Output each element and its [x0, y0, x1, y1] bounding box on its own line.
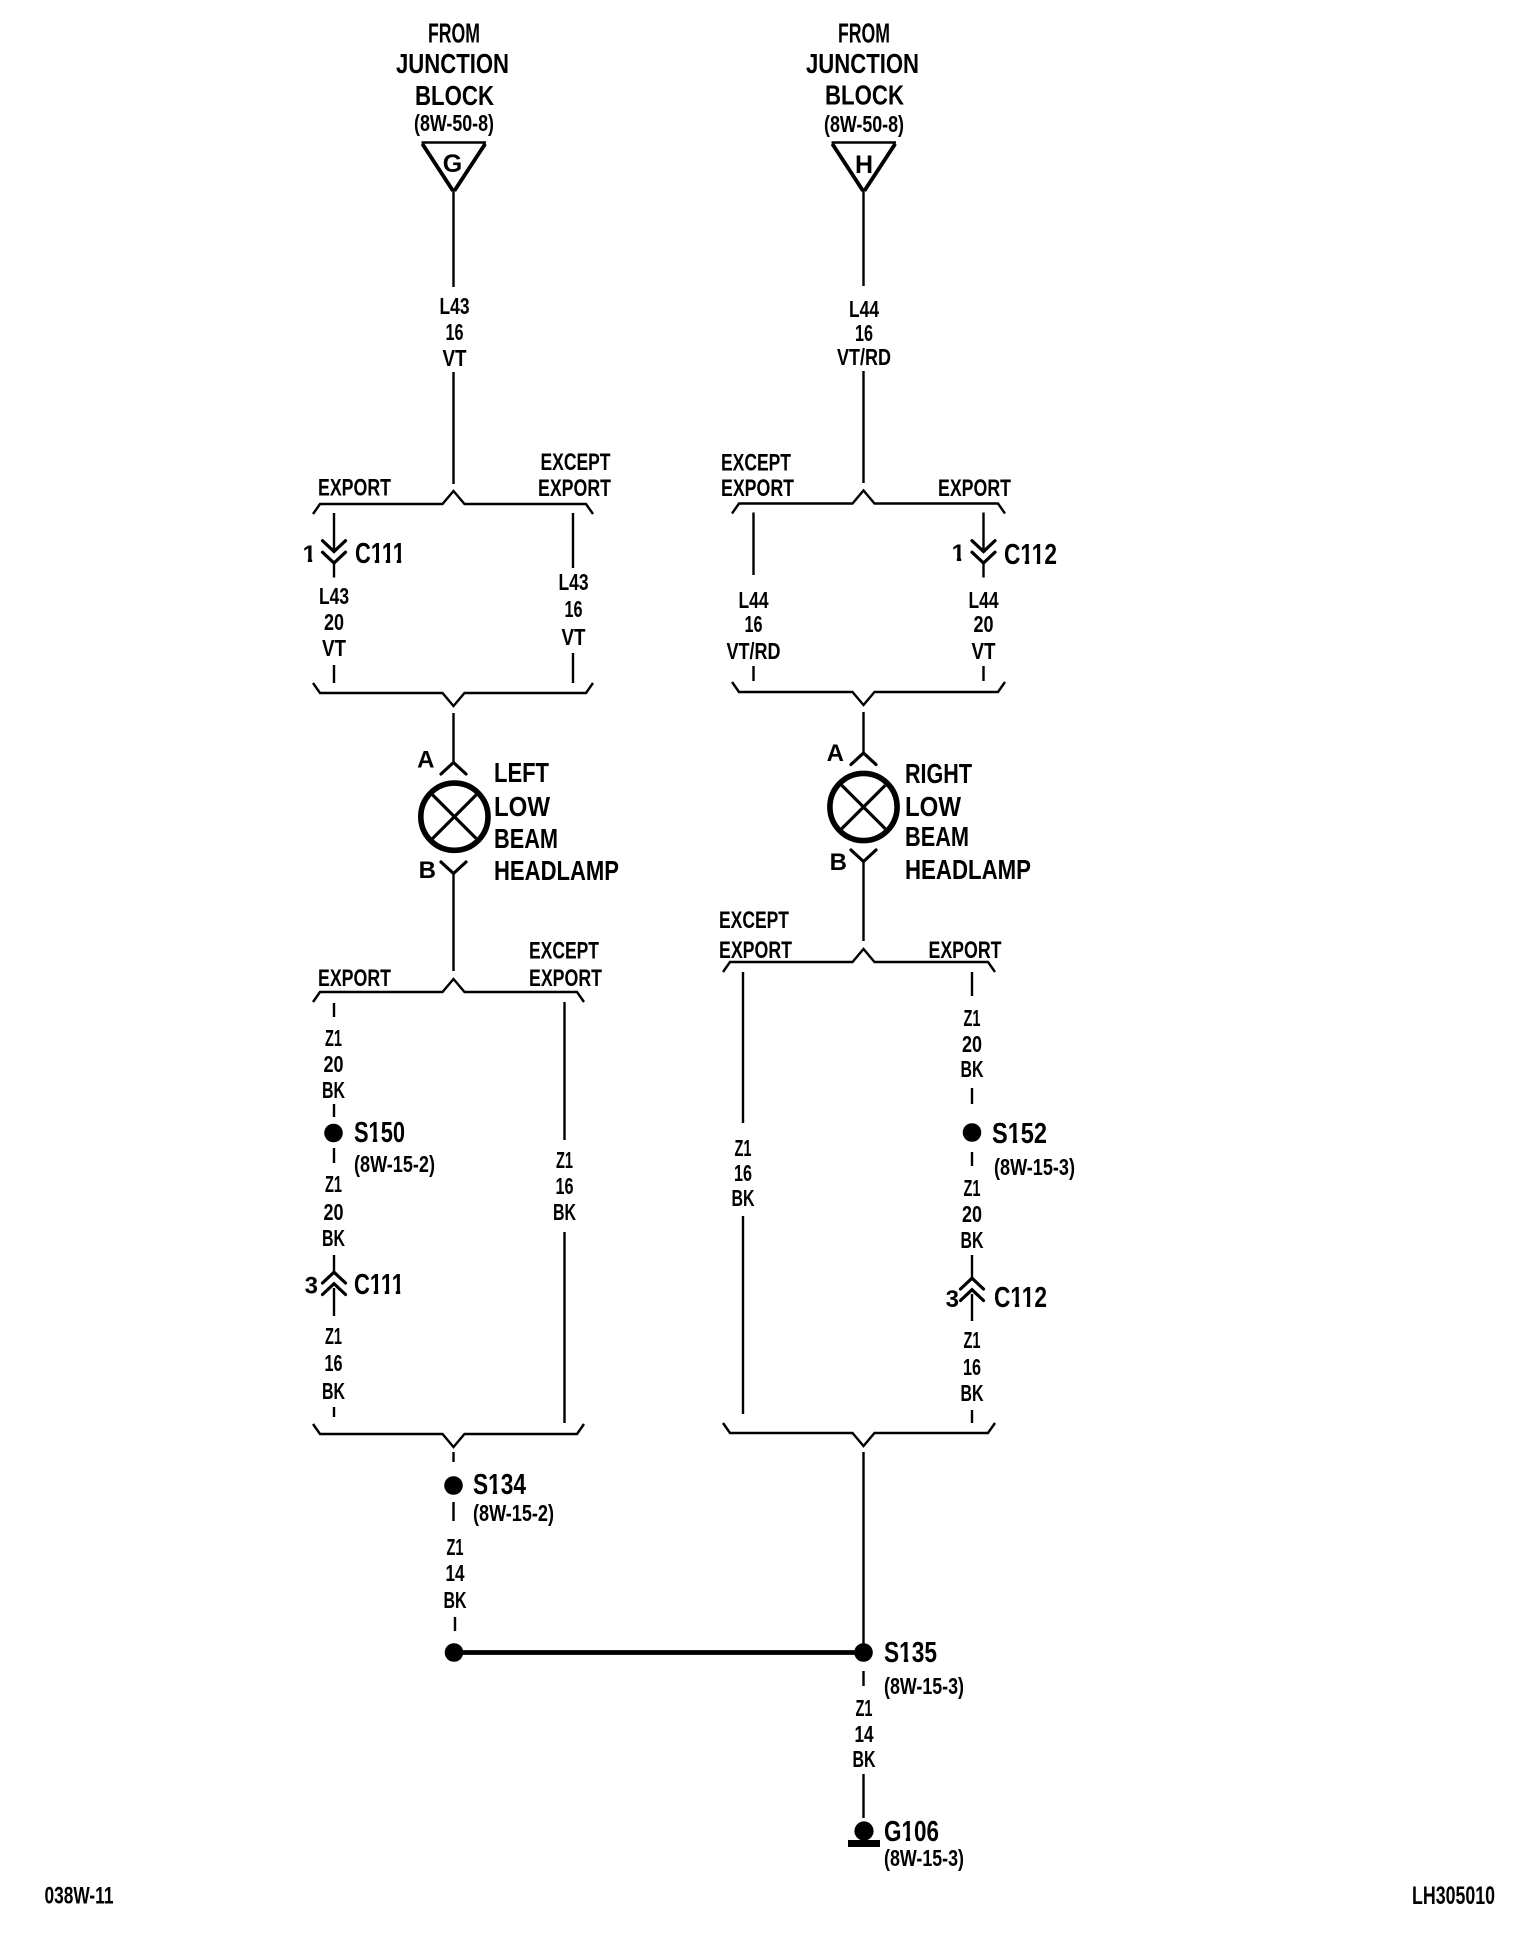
label EXCEPT EXPORT (left branch of split 1 right) [721, 450, 794, 503]
wire from triangle G down [452, 190, 454, 287]
svg-text:20: 20 [962, 1031, 982, 1057]
svg-text:16: 16 [745, 611, 763, 637]
dashed wire segment (export branch top) [333, 1003, 335, 1017]
wire right branch (EXPORT) down to C112 [982, 513, 984, 550]
svg-text:VT: VT [562, 624, 587, 650]
svg-text:LOW: LOW [494, 791, 550, 822]
svg-text:EXPORT: EXPORT [938, 475, 1011, 502]
wire from triangle H down [862, 190, 864, 286]
wire label L43 16 VT (except export branch) [559, 569, 589, 650]
connector triangle H (off-page from junction block) [832, 143, 897, 191]
svg-text:Z1: Z1 [856, 1695, 873, 1721]
svg-text:RIGHT: RIGHT [905, 758, 972, 789]
lamp name RIGHT LOW BEAM HEADLAMP [905, 758, 1031, 885]
dashed wire segment [452, 1452, 454, 1462]
svg-text:20: 20 [324, 1199, 344, 1225]
wire right branch (EXPORT) [971, 972, 973, 996]
svg-text:16: 16 [734, 1160, 752, 1186]
svg-text:S134: S134 [473, 1469, 526, 1501]
dashed wire segment [752, 666, 754, 681]
svg-text:20: 20 [324, 1051, 344, 1077]
svg-text:G106: G106 [884, 1816, 939, 1848]
svg-text:L44: L44 [849, 296, 879, 322]
svg-text:Z1: Z1 [325, 1323, 342, 1349]
wire right branch (EXCEPT EXPORT) [572, 513, 574, 568]
wire label L43 20 VT (export branch) [319, 583, 349, 661]
wire from merge down to pin A [452, 713, 454, 762]
dashed wire segment [971, 1088, 973, 1104]
splice S150 [324, 1124, 343, 1143]
wire down to split brace [452, 372, 454, 484]
svg-text:C111: C111 [354, 1269, 404, 1301]
svg-text:H: H [855, 151, 873, 179]
wire from merge down to S135 [862, 1452, 864, 1644]
svg-text:LEFT: LEFT [494, 757, 549, 788]
wire label Z1 16 BK [553, 1147, 576, 1225]
svg-text:EXCEPT: EXCEPT [721, 450, 791, 477]
svg-text:(8W-50-8): (8W-50-8) [824, 111, 904, 137]
svg-text:EXCEPT: EXCEPT [719, 907, 789, 934]
connector triangle G (off-page from junction block) [422, 143, 487, 191]
svg-text:C112: C112 [1004, 539, 1057, 571]
svg-text:14: 14 [855, 1721, 874, 1747]
pin B connector fork [851, 850, 876, 862]
connector C112 pin 1 (in-line, female chevrons) [972, 541, 995, 578]
lamp LEFT LOW BEAM HEADLAMP (circle with X) [421, 783, 488, 850]
svg-text:EXPORT: EXPORT [929, 937, 1002, 964]
lamp name LEFT LOW BEAM HEADLAMP [494, 757, 619, 886]
node H header text FROM JUNCTION BLOCK (8W-50-8) [806, 18, 919, 138]
dashed wire segment [971, 1152, 973, 1166]
svg-text:(8W-15-3): (8W-15-3) [884, 1845, 964, 1871]
svg-text:S135: S135 [884, 1637, 937, 1669]
wire label L44 20 VT [969, 587, 999, 664]
svg-text:FROM: FROM [428, 18, 480, 49]
svg-text:Z1: Z1 [325, 1025, 342, 1051]
svg-text:16: 16 [325, 1350, 343, 1376]
svg-text:BK: BK [961, 1056, 984, 1082]
splice S135 [854, 1643, 873, 1662]
svg-text:Z1: Z1 [556, 1147, 573, 1173]
svg-text:BK: BK [322, 1077, 345, 1103]
junction node (left) [445, 1643, 464, 1662]
splice S134 [444, 1476, 463, 1495]
svg-text:C112: C112 [994, 1282, 1047, 1314]
svg-text:BK: BK [961, 1380, 984, 1406]
svg-text:20: 20 [324, 609, 344, 635]
svg-text:BEAM: BEAM [494, 823, 558, 854]
svg-text:EXPORT: EXPORT [318, 965, 391, 992]
svg-text:EXPORT: EXPORT [719, 937, 792, 964]
svg-text:JUNCTION: JUNCTION [396, 48, 509, 79]
wire label Z1 20 BK [322, 1171, 345, 1251]
wire label Z1 16 BK [732, 1135, 755, 1211]
svg-text:Z1: Z1 [964, 1175, 981, 1201]
svg-text:BLOCK: BLOCK [825, 80, 904, 111]
wire from merge down to pin A [862, 712, 864, 753]
svg-text:BK: BK [444, 1587, 467, 1613]
svg-text:EXCEPT: EXCEPT [541, 449, 611, 476]
pin A connector caret [851, 753, 876, 765]
wire label Z1 14 BK [853, 1695, 876, 1772]
dashed wire segment [333, 1104, 335, 1117]
svg-text:20: 20 [974, 611, 994, 637]
dashed wire segment [333, 1407, 335, 1417]
wire segment below S134 [452, 1502, 454, 1521]
svg-text:3: 3 [305, 1273, 318, 1300]
wire label L43 16 VT [440, 293, 470, 371]
svg-text:Z1: Z1 [447, 1534, 464, 1560]
svg-text:1: 1 [303, 541, 316, 568]
svg-text:BEAM: BEAM [905, 821, 969, 852]
dashed wire segment [982, 666, 984, 681]
svg-text:B: B [830, 849, 847, 876]
svg-text:HEADLAMP: HEADLAMP [494, 855, 619, 886]
label EXCEPT EXPORT (right branch of split 1 left) [538, 449, 611, 502]
wire label Z1 20 BK [961, 1005, 984, 1082]
split brace (left circuit, top) [313, 491, 593, 514]
svg-text:VT/RD: VT/RD [727, 638, 781, 664]
svg-text:16: 16 [446, 319, 464, 345]
svg-text:LOW: LOW [905, 791, 961, 822]
svg-text:BK: BK [553, 1199, 576, 1225]
wire down to merge [563, 1232, 565, 1423]
wire label L44 16 VT/RD [837, 296, 891, 370]
dashed wire segment [333, 1255, 335, 1272]
dashed wire segment [862, 1671, 864, 1686]
split brace (right circuit, top) [732, 491, 1005, 514]
glyph cleanup: trim serif feet on digit 1 to match original font [303, 557, 1044, 1841]
svg-text:038W-11: 038W-11 [45, 1883, 114, 1910]
svg-text:Z1: Z1 [325, 1171, 342, 1197]
svg-text:16: 16 [556, 1173, 574, 1199]
merge brace (left circuit, bottom) [313, 1424, 584, 1447]
dashed wire segment [971, 1410, 973, 1423]
svg-text:(8W-15-2): (8W-15-2) [354, 1151, 435, 1177]
svg-text:Z1: Z1 [735, 1135, 752, 1161]
svg-text:A: A [827, 740, 844, 767]
svg-text:14: 14 [446, 1560, 465, 1586]
svg-text:VT: VT [443, 345, 468, 371]
wire label Z1 16 BK [961, 1327, 984, 1406]
wire (heavy) to S135 [455, 1650, 863, 1655]
connector C111 pin 1 (in-line, female chevrons) [323, 541, 346, 578]
svg-text:EXPORT: EXPORT [538, 475, 611, 502]
pin A connector caret [441, 763, 466, 775]
svg-text:16: 16 [565, 596, 583, 622]
wire from pin B down to split 2 [862, 862, 864, 942]
svg-text:FROM: FROM [838, 18, 890, 49]
svg-text:16: 16 [855, 320, 873, 346]
svg-text:VT: VT [972, 638, 997, 664]
svg-text:S150: S150 [354, 1117, 405, 1149]
label EXCEPT EXPORT (right branch of split 2 left) [529, 938, 602, 993]
svg-text:20: 20 [962, 1201, 982, 1227]
svg-text:G: G [443, 150, 462, 178]
label EXCEPT EXPORT (left branch of split 2 right) [719, 907, 792, 964]
svg-text:BK: BK [853, 1746, 876, 1772]
svg-text:16: 16 [963, 1354, 981, 1380]
wire from pin B down to split 2 [452, 874, 454, 972]
svg-text:L43: L43 [559, 569, 589, 595]
svg-text:(8W-15-2): (8W-15-2) [473, 1500, 554, 1526]
split brace (left circuit, below headlamp) [313, 979, 584, 1002]
svg-text:VT: VT [322, 635, 347, 661]
dashed wire segment [333, 1148, 335, 1163]
svg-text:LH305010: LH305010 [1412, 1882, 1495, 1910]
svg-text:EXCEPT: EXCEPT [529, 938, 599, 965]
svg-text:VT/RD: VT/RD [837, 344, 891, 370]
merge brace (right circuit, bottom) [723, 1423, 995, 1446]
wire left branch (EXPORT) down to C111 [333, 513, 335, 549]
svg-text:(8W-50-8): (8W-50-8) [414, 110, 494, 136]
wire label Z1 16 BK [322, 1323, 345, 1404]
merge brace (right circuit, above headlamp) [732, 682, 1005, 705]
splice S152 [963, 1123, 982, 1142]
wire right branch (except export) long [563, 1002, 565, 1140]
svg-text:BK: BK [732, 1185, 755, 1211]
svg-text:Z1: Z1 [964, 1005, 981, 1031]
svg-text:EXPORT: EXPORT [318, 475, 391, 502]
svg-text:EXPORT: EXPORT [721, 475, 794, 502]
svg-text:S152: S152 [992, 1118, 1047, 1150]
wire label Z1 20 BK [961, 1175, 984, 1253]
connector C112 pin 3 (in-line, male chevrons) [961, 1278, 984, 1321]
svg-text:EXPORT: EXPORT [529, 965, 602, 992]
wire down to split brace [862, 371, 864, 483]
wire label Z1 14 BK [444, 1534, 467, 1613]
dashed wire segment [333, 665, 335, 683]
split brace (right circuit, below headlamp) [723, 949, 995, 972]
svg-text:3: 3 [946, 1286, 959, 1313]
connector C111 pin 3 (in-line, male chevrons) [323, 1272, 346, 1316]
svg-text:L44: L44 [969, 587, 999, 613]
wire down to ground [862, 1774, 864, 1818]
svg-text:L43: L43 [440, 293, 470, 319]
pin B connector fork [441, 862, 466, 874]
svg-text:B: B [419, 857, 436, 884]
svg-text:BK: BK [961, 1227, 984, 1253]
svg-text:1: 1 [952, 540, 965, 567]
svg-text:L44: L44 [739, 587, 769, 613]
wire segment [971, 1255, 973, 1278]
wire label L44 16 VT/RD [727, 587, 781, 664]
svg-text:L43: L43 [319, 583, 349, 609]
wire label Z1 20 BK [322, 1025, 345, 1103]
merge brace (left circuit, above headlamp) [313, 683, 593, 706]
wire left branch (except export) [752, 513, 754, 576]
svg-text:(8W-15-3): (8W-15-3) [884, 1673, 964, 1699]
svg-text:BLOCK: BLOCK [415, 80, 494, 111]
svg-text:HEADLAMP: HEADLAMP [905, 854, 1031, 885]
svg-text:BK: BK [322, 1378, 345, 1404]
ground G106 symbol [848, 1821, 880, 1847]
svg-text:Z1: Z1 [964, 1327, 981, 1353]
svg-text:JUNCTION: JUNCTION [806, 48, 919, 79]
svg-text:(8W-15-3): (8W-15-3) [994, 1154, 1075, 1180]
wire left branch (except export) long [742, 972, 744, 1123]
lamp RIGHT LOW BEAM HEADLAMP (circle with X) [830, 773, 897, 840]
dashed wire segment [454, 1617, 456, 1631]
wire down to merge [742, 1216, 744, 1414]
wire to merge brace [572, 653, 574, 683]
node G header text FROM JUNCTION BLOCK (8W-50-8) [396, 18, 509, 137]
svg-text:BK: BK [322, 1225, 345, 1251]
svg-text:A: A [417, 747, 434, 774]
svg-text:C111: C111 [355, 538, 405, 570]
